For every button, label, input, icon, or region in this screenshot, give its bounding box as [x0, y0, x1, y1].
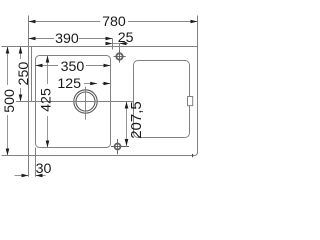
- 125 arrow at bowl edge: [104, 82, 111, 86]
- bowl left edge extension down: [35, 148, 37, 177]
- 25 right (outside, pointing left): [120, 42, 127, 46]
- 425 dim line: [47, 56, 49, 85]
- 25 dim line: [113, 43, 129, 45]
- 207,5 bottom: [125, 139, 129, 146]
- 30 left (outside, pointing right): [22, 174, 29, 178]
- 125 arrow at circle edge: [90, 82, 97, 86]
- 30 right (outside, pointing left): [36, 174, 43, 178]
- bottom edge extension left: [2, 155, 33, 157]
- 25 left (outside, pointing right): [106, 42, 113, 46]
- 207,5 dim line: [126, 102, 128, 147]
- svg-text:390: 390: [55, 31, 79, 47]
- svg-text:500: 500: [2, 89, 18, 113]
- centerline extension (390): [112, 39, 114, 50]
- tap hole: [114, 50, 126, 62]
- svg-text:780: 780: [102, 14, 126, 30]
- drain crosshair horizontal: [16, 101, 134, 103]
- tap hole extension: [119, 44, 121, 53]
- overflow tab on drainboard right edge: [188, 97, 193, 106]
- arrows: [6, 20, 198, 178]
- sink outline: [29, 47, 198, 156]
- drain crosshair vertical: [85, 87, 87, 120]
- drainboard contour: [134, 61, 190, 138]
- small hole bottom right of bowl: [111, 139, 129, 154]
- 30 dim line: [15, 175, 29, 177]
- 780 right: [191, 20, 198, 24]
- 390 right: [106, 37, 113, 41]
- svg-text:425: 425: [39, 88, 55, 112]
- drain circle outer: [74, 90, 97, 113]
- svg-text:207,5: 207,5: [128, 101, 145, 139]
- tick mark on bottom edge near right corner: [192, 154, 194, 157]
- 350 left: [36, 64, 43, 68]
- 390 left: [29, 37, 36, 41]
- svg-text:350: 350: [61, 59, 85, 75]
- left edge extension down: [28, 152, 30, 177]
- left edge extension up: [28, 16, 30, 51]
- 425 bottom: [46, 141, 50, 148]
- 350 right: [104, 64, 111, 68]
- 207,5 top: [125, 102, 129, 109]
- 500 bottom: [6, 149, 10, 156]
- 125 dim line: [84, 83, 97, 85]
- inner ledge line: [31, 47, 33, 102]
- 250 bottom: [19, 95, 23, 102]
- 390 dim line: [29, 38, 55, 40]
- 500 dim line: [7, 47, 9, 86]
- 780 dim line: [29, 21, 101, 23]
- 250 top: [19, 47, 23, 54]
- svg-text:250: 250: [16, 62, 32, 86]
- svg-text:25: 25: [118, 30, 134, 46]
- top edge extension left: [2, 46, 33, 48]
- bowl: [36, 56, 111, 148]
- 500 top: [6, 47, 10, 54]
- 780 left: [29, 20, 36, 24]
- 350 dim line: [36, 65, 59, 67]
- drain circle inner: [76, 92, 95, 111]
- svg-text:30: 30: [36, 161, 52, 177]
- 425 top: [46, 56, 50, 63]
- svg-text:125: 125: [57, 76, 81, 92]
- right edge extension up: [197, 16, 199, 51]
- 250 dim line: [20, 47, 22, 60]
